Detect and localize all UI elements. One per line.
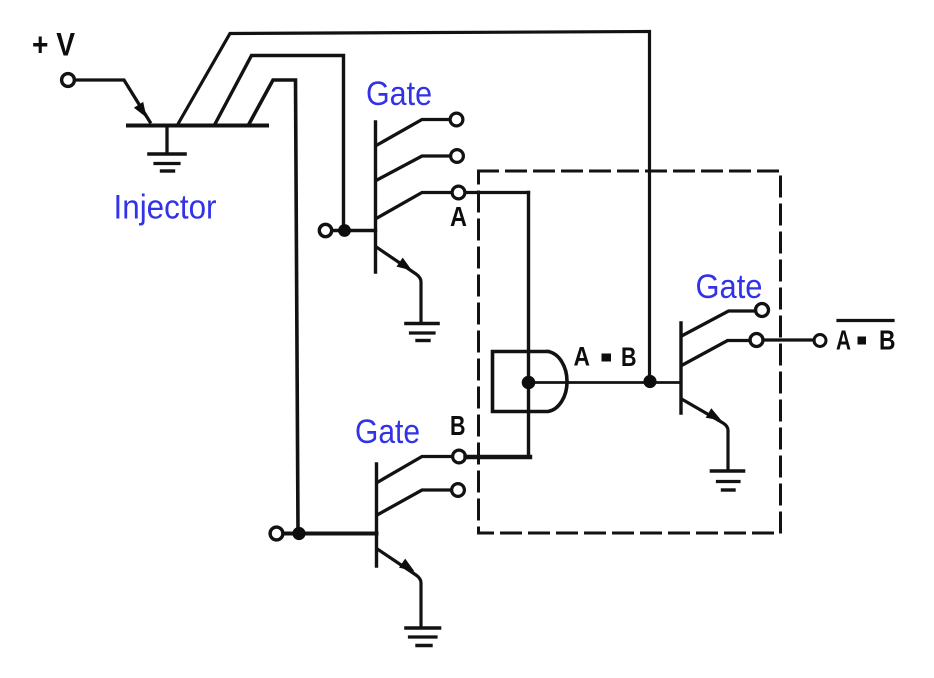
svg-text:Gate: Gate — [366, 75, 432, 113]
svg-text:A: A — [836, 325, 851, 356]
svg-text:B: B — [450, 410, 466, 441]
svg-text:+ V: + V — [32, 27, 76, 63]
svg-text:Gate: Gate — [355, 413, 420, 451]
svg-text:B: B — [879, 325, 896, 356]
svg-text:A: A — [450, 201, 467, 232]
svg-text:Injector: Injector — [114, 189, 217, 227]
svg-text:A: A — [574, 342, 591, 372]
svg-text:Gate: Gate — [696, 268, 763, 306]
svg-text:B: B — [621, 342, 637, 372]
